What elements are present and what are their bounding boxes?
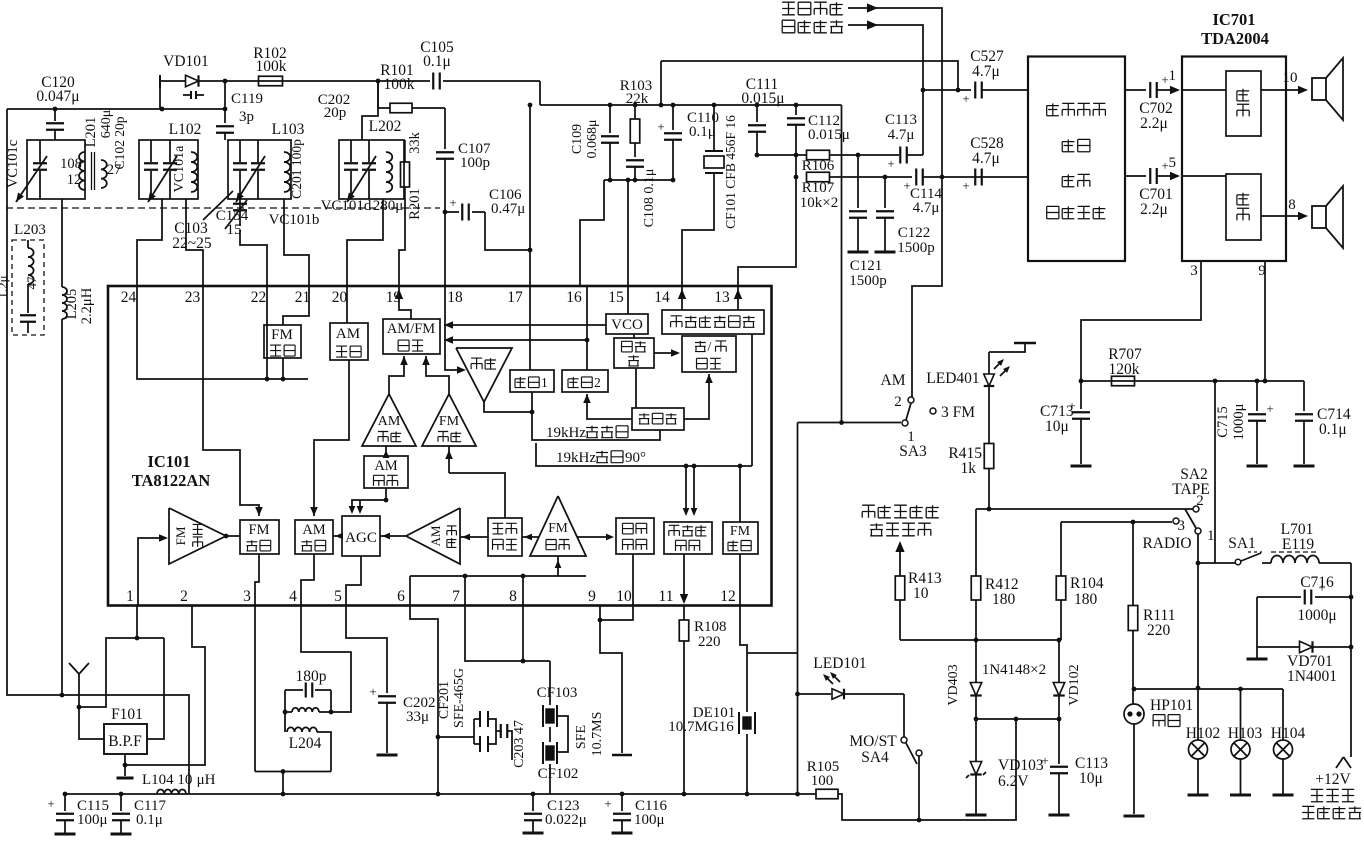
tank box L103/C201/VC101b [228,140,291,199]
svg-text:AM: AM [336,326,360,342]
svg-text:VC101c: VC101c [5,140,21,188]
svg-text:2: 2 [594,375,601,390]
svg-text:10: 10 [616,588,632,605]
wire trigger to divider [635,368,637,408]
block AM osc [330,323,368,360]
svg-text:0.022μ: 0.022μ [545,812,587,828]
svg-text:+: + [47,796,54,811]
capacitor C715 1000u [1215,381,1274,466]
svg-text:TA8122AN: TA8122AN [132,471,211,490]
label VC101b [269,212,320,228]
wire IC701 pin3 to rail [1081,261,1201,381]
wire AM osc to AM mixer [310,360,349,516]
svg-text:19kHz: 19kHz [556,450,596,466]
svg-text:FM: FM [271,327,293,343]
wire AM det top [383,446,390,458]
wire FMRF to FM mixer [226,535,240,537]
resistor R101 100k [378,62,445,113]
wire stereo ind to pin11 [683,554,685,596]
label C201 100p [289,139,304,199]
wire pin17 to pd1 [528,103,533,370]
wire mpx out to C527 [659,61,961,107]
wire FMRF in [138,534,168,605]
wire VCO to AMFM switch [444,321,606,329]
svg-text:R104: R104 [1070,575,1104,592]
wire C105 to IF rail [539,81,541,105]
trimmer C154 15 [216,199,249,238]
svg-text:FM: FM [173,526,188,545]
capacitor C123 0.022u [523,794,587,833]
svg-text:VC101b: VC101b [269,212,320,228]
wire pin23 to FM mixer [203,286,263,516]
neon lamp HP101 [1124,697,1194,816]
tank box L202/VC101d [339,140,404,199]
switch SA2 [1142,466,1214,552]
svg-text:FM: FM [249,522,270,538]
wire SA2 pole down [1196,534,1201,690]
wire rail right extension [838,717,1018,820]
node SA3 feed junction [839,420,844,425]
svg-text:E119: E119 [1282,536,1314,553]
pin 19 arrow [395,289,403,299]
capacitor C116 100u [604,794,667,833]
svg-text:L102: L102 [169,121,202,138]
wire pin5 down [346,605,387,693]
svg-text:CF201: CF201 [437,681,452,719]
label 280u [373,198,404,214]
wire pin19 to R201 [399,199,405,286]
svg-text:L204: L204 [289,735,322,752]
wire C103 trimmer pointer [203,191,233,220]
svg-text:10k×2: 10k×2 [800,195,838,211]
svg-text:L203: L203 [14,222,46,238]
capacitor C202 33u [369,684,435,755]
svg-text:VD103: VD103 [998,757,1044,774]
wire C112 to R107 [795,155,797,177]
svg-text:AM/FM: AM/FM [387,321,435,337]
wire supply drop x797 [797,423,799,795]
resistor R106 10k [802,150,899,174]
capacitor in tank3 [233,140,247,199]
svg-text:C108 0.1μ: C108 0.1μ [642,169,657,228]
svg-text:R201: R201 [407,188,423,219]
resistor R415 1k [948,444,993,510]
svg-text:2: 2 [894,394,902,410]
capacitor C203 47 [496,720,527,768]
wire SA1 feed drop [1214,381,1216,563]
svg-text:8: 8 [509,588,517,605]
svg-text:IC701: IC701 [1212,10,1255,29]
svg-text:+: + [1068,398,1075,413]
svg-text:4.7μ: 4.7μ [913,200,940,216]
svg-text:+: + [962,91,969,106]
block AM IF amp triangle [406,508,460,564]
wire left border down to bottom [7,109,189,794]
svg-text:MO/ST: MO/ST [849,733,897,750]
lamp H102 [1186,689,1220,795]
capacitor C713 10u [1040,381,1092,466]
svg-text:2.2μH: 2.2μH [79,287,95,324]
capacitor C109 0.068u [570,103,619,180]
svg-text:B.P.F: B.P.F [108,733,142,750]
node R107 left [794,175,799,180]
resistor R413 10 [895,570,942,640]
block tune indicator [616,518,654,554]
terminal +12V battery input [1302,757,1361,819]
svg-text:C716: C716 [1300,574,1334,591]
svg-text:33μ: 33μ [406,709,429,725]
block AM/FM switch [383,319,440,354]
resistor R412 180 [971,509,1018,640]
wire level det to AMIF [460,534,488,541]
svg-text:+: + [449,195,456,210]
svg-text:16: 16 [566,289,582,306]
capacitor C716 1000u [1257,574,1351,624]
resistor R107 10kx2 [800,172,912,211]
node supply drop joints [795,692,800,697]
svg-text:4: 4 [289,588,297,605]
inductor L202 coil [386,152,392,192]
wire ctrl out1 [1125,89,1146,91]
svg-text:15: 15 [608,289,624,306]
switch SA3 [881,372,976,460]
svg-text:1k: 1k [961,460,977,477]
ceramic filter CF102 [538,727,579,794]
svg-text:10.7MG16: 10.7MG16 [668,719,734,735]
wire top-left rail [7,108,225,110]
capacitor C108 0.1u [626,143,657,227]
svg-text:CF103: CF103 [537,685,578,701]
resistor R111 220 [1128,522,1175,704]
svg-text:9: 9 [1258,263,1266,279]
wire amp2 out [1261,197,1308,220]
wire RADIO row y522 [1061,520,1172,525]
svg-text:C715: C715 [1215,406,1231,437]
capacitor C110 0.1u [657,103,719,180]
wire pin22 to C154 [240,230,267,286]
label C103 22~25 [172,220,212,252]
wire 19k line2 [536,334,752,466]
lamp H103 [1228,689,1263,795]
wire level det to FM amp [445,446,505,518]
svg-text:CF101 CFB 456F 16: CF101 CFB 456F 16 [723,115,738,229]
wire pin12 down [740,605,747,712]
svg-text:2.2μ: 2.2μ [1140,115,1168,132]
wire pin19 internal [399,286,411,319]
svg-text:VD101: VD101 [163,53,209,70]
wire IC701 pin9 down [1264,261,1266,381]
wire amp1 in [1182,89,1226,91]
inductor in 180p tank [283,708,334,715]
svg-text:AM: AM [881,372,906,389]
wire antenna to BPF [79,707,104,739]
svg-text:5: 5 [1169,155,1177,171]
variable capacitor VC101b arrow [236,140,265,202]
svg-text:7: 7 [452,588,460,605]
block level detect [488,518,522,556]
resistor R104 180 [1056,522,1104,640]
wire bottom ground rail [65,793,816,795]
node C111 out [755,153,760,158]
svg-text:90°: 90° [625,450,646,466]
wire pin24 to tank2 [137,199,162,286]
svg-text:AM: AM [374,458,397,474]
wire pin7 down [465,605,550,663]
capacitor C122 1500p [875,177,935,256]
wire FM amp out [422,356,449,394]
diode VD101 varactor [160,53,259,99]
svg-text:RADIO: RADIO [1142,535,1191,552]
transformer L201 [60,110,114,190]
svg-text:6: 6 [397,588,405,605]
block FM RF amp triangle [169,508,226,564]
pin 11 arrow [680,594,688,604]
svg-text:100p: 100p [460,155,490,171]
wire FM det top [739,466,741,522]
label 19kHz phase shift 90 [556,450,646,466]
svg-text:3: 3 [1178,518,1186,534]
svg-text:SFE: SFE [574,725,589,749]
capacitor C111 0.015u [741,76,784,155]
capacitor C113b 10u [1041,719,1108,815]
variable capacitor VC101a [148,140,187,202]
block AM detector [364,456,408,488]
svg-text:CF102: CF102 [538,766,579,782]
label C102 20p [112,116,127,169]
node FMRF out [224,534,229,539]
capacitor C106 0.47u [445,187,532,252]
wire pd2 tap to switch [444,336,587,344]
wire tune ind to pin10 [632,554,634,605]
svg-text:100μ: 100μ [634,812,665,828]
block amp triangle [456,348,512,402]
wire pin6 internal [409,576,411,605]
block FM osc [264,325,301,358]
resistor R108 220 [679,605,726,794]
svg-text:5: 5 [334,588,342,605]
block divider [632,408,684,430]
svg-text:18: 18 [447,289,463,306]
inductor L104 10uH [142,772,216,794]
ganged tuning dashed line [6,207,440,209]
wire pin20 to tank4 [347,199,383,286]
wire FMIF to tune ind [577,534,614,541]
resistor R201 33k [401,131,424,219]
svg-text:120k: 120k [1109,361,1140,378]
node C107-C106 junction [443,210,448,215]
label VC101d [321,198,372,214]
svg-text:1.2μ: 1.2μ [0,275,10,298]
wire amp1 out [1261,70,1308,94]
capacitor C107 100p [436,108,491,212]
ceramic filter CF103 [537,661,578,727]
lamp H104 [1271,689,1306,795]
wire DE101 top link [747,652,798,654]
wire FMIF to level det [522,534,539,541]
wire AM IF to AGC [380,533,406,540]
capacitor in tank4 [344,140,358,199]
capacitor C115 100u [47,794,109,834]
wire FM det to pin12 [739,554,741,605]
svg-text:TAPE: TAPE [1172,481,1210,498]
svg-text:+: + [1266,401,1273,416]
label 27 [107,162,122,178]
svg-text:100k: 100k [384,76,415,93]
block volume/tone control [1028,57,1125,262]
resistor R102 100k [253,45,378,86]
svg-text:SA1: SA1 [1228,535,1256,552]
svg-text:10μ: 10μ [1045,418,1069,435]
block phase det 1 [510,370,554,392]
svg-text:VD102: VD102 [1067,664,1082,705]
svg-text:+: + [887,156,894,171]
wire pin4 down [301,605,351,712]
wire FMIF bottom feed [555,556,562,576]
block mono/stereo switch [682,336,736,372]
svg-text:22k: 22k [626,91,649,107]
node lamp bus tap [1132,687,1137,692]
svg-text:220: 220 [698,634,721,650]
wire to CF201 [438,736,474,738]
wire pin21 to tank3 [284,199,309,286]
wire tank4 top feed [376,79,381,108]
svg-text:9: 9 [588,588,596,605]
wire BPF bottom [117,754,134,778]
label L102 [169,121,202,138]
svg-text:IC101: IC101 [147,452,190,471]
wire pin13 to demod [737,286,739,310]
wire AM contact feed [912,177,942,397]
svg-text:C113: C113 [885,112,917,128]
svg-text:+: + [657,119,664,134]
inductor L103 coil [284,152,290,192]
capacitor C120 0.047u [36,74,79,140]
capacitor 180p tank [285,668,331,712]
block stereo demodulator [662,310,764,334]
svg-text:H102: H102 [1186,725,1220,742]
wire pin21 to FM osc [283,286,309,325]
svg-text:10.7MS: 10.7MS [590,712,605,757]
svg-text:3: 3 [243,588,251,605]
zener VD103 6.2V [966,719,1044,815]
wire R707 rail y381 [1081,380,1304,382]
wire AM mixer to AGC [333,533,343,540]
svg-text:FM: FM [439,414,460,429]
wire pin3 down [255,605,331,794]
tank box VC101c/L201 [27,140,85,199]
pin label 3 [1190,263,1198,279]
capacitor C114 4.7u [883,169,1028,217]
resistor R105 100 [807,759,840,799]
block phase det 2 [562,370,608,392]
svg-text:19kHz: 19kHz [546,425,586,441]
svg-text:0.015μ: 0.015μ [808,127,850,143]
switch SA4 MO/ST [849,694,922,822]
speaker bottom [1312,186,1343,248]
svg-text:+12V: +12V [1315,771,1351,788]
svg-text:2.2μ: 2.2μ [1140,201,1168,218]
block trigger [614,338,654,368]
svg-text:VC101d: VC101d [321,198,372,214]
label L103 [272,121,305,138]
wire divider to switch [684,374,713,419]
wire IF rail y105 [540,104,842,106]
svg-text:VCO: VCO [611,317,643,333]
pin 13 arrow [734,289,742,299]
node tape line junctions [921,88,945,180]
svg-text:C201 100p: C201 100p [289,139,304,199]
pin 14 arrow [678,289,686,299]
svg-text:1: 1 [1207,528,1215,544]
svg-text:33k: 33k [407,131,423,154]
IC U701 TDA2004 outline [1182,10,1286,261]
svg-text:LED101: LED101 [813,655,866,672]
svg-text:HP101: HP101 [1150,697,1193,714]
wire pin10 down [598,605,633,622]
capacitor in L203 [0,275,39,333]
svg-text:TDA2004: TDA2004 [1201,29,1269,48]
svg-text:10: 10 [1283,70,1298,86]
svg-text:H103: H103 [1228,725,1263,742]
block FM mixer [240,520,279,554]
svg-text:C119: C119 [231,91,263,107]
capacitor C121 1500p [848,155,887,289]
svg-text:0.047μ: 0.047μ [36,88,79,105]
LED LED401 [926,343,1036,443]
capacitor C113 4.7u [885,112,923,171]
capacitor C105 0.1u [378,39,540,90]
wire AM det to AGC [349,488,389,514]
inductor L205 2.2uH [62,199,95,695]
svg-text:1500p: 1500p [897,240,935,256]
svg-text:10μ: 10μ [1079,770,1103,787]
svg-text:13: 13 [714,289,730,306]
wire pin7 internal [464,576,466,605]
wire bottom bus y576 [410,574,586,579]
block AGC [342,516,380,556]
svg-text:100k: 100k [256,58,287,75]
wire tank4 feed jog [362,108,378,140]
wire AM amp out [389,356,408,394]
svg-text:1: 1 [126,588,134,605]
svg-text:1000μ: 1000μ [1231,403,1247,440]
inductor L701 E119 [1271,521,1351,563]
node VD101-R102 junction [223,79,228,84]
svg-text:L103: L103 [272,121,305,138]
svg-text:20: 20 [332,289,348,306]
svg-text:6.2V: 6.2V [998,773,1029,790]
capacitor C119 3p [216,81,263,140]
wire BPF to pin2 [125,605,205,765]
wire C527 row [923,89,971,91]
ceramic filter CF201 SFE-465G [437,668,496,752]
svg-text:μH: μH [197,772,216,788]
wire R413 row y640 [900,638,1061,643]
svg-text:180: 180 [992,591,1016,608]
wire pin15 to VCO [626,178,631,314]
switch SA1 [1198,535,1271,565]
node fmdet tap [738,464,743,469]
svg-text:20p: 20p [324,105,347,121]
svg-text:VC101a: VC101a [172,145,187,192]
svg-text:L201: L201 [83,117,99,148]
svg-text:4.7μ: 4.7μ [972,150,1000,167]
wire ctrl out2 [1125,175,1146,177]
svg-text:2: 2 [180,588,188,605]
node junctions y155 [794,153,861,158]
IC U101 TA8122AN outline [108,286,772,606]
svg-text:0.1μ: 0.1μ [1319,421,1347,438]
